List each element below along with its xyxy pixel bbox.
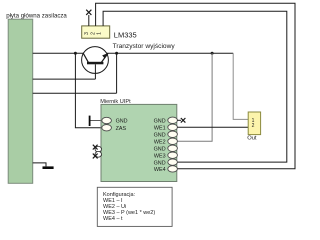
svg-text:GND: GND — [154, 133, 166, 139]
left pin ZAS of meter — [102, 125, 127, 132]
no-connect X on LM335 pin 3 — [86, 10, 91, 15]
wire: riser x=75.4 from node A down to ZAS wire — [75, 53, 102, 128]
LM335 pin 3 lead — [88, 15, 90, 26]
svg-text:GND: GND — [154, 119, 166, 125]
right pin WE2 — [154, 138, 177, 145]
wire: board to base net, y=79.1 — [33, 78, 96, 80]
svg-text:WE2: WE2 — [154, 140, 166, 146]
right pin GND (2) — [154, 131, 178, 138]
ground power bar below board — [33, 163, 54, 169]
LM335 temperature sensor U2 — [82, 26, 137, 40]
svg-text:2: 2 — [252, 123, 255, 129]
svg-text:WE1: WE1 — [154, 126, 166, 132]
svg-text:1: 1 — [97, 32, 103, 35]
svg-text:LM335: LM335 — [114, 31, 137, 40]
configuration note box — [97, 187, 172, 226]
left no-connect pin row 5 of meter — [93, 145, 102, 152]
power bar symbol at meter GND input — [89, 116, 102, 126]
right pin GND (4) — [154, 159, 178, 166]
node B junction dot — [115, 52, 118, 55]
node C junction dot — [211, 52, 214, 55]
svg-text:WE4: WE4 — [154, 167, 166, 173]
left pin GND of meter — [102, 117, 128, 124]
right pin WE3 — [154, 152, 177, 160]
right pin WE1 — [154, 124, 177, 131]
meter sheet symbol "Miernik UIPt" — [100, 99, 177, 182]
wire: LM335 pin 2 up and right outer loop to WE4 — [96, 3, 295, 169]
svg-text:WE3: WE3 — [154, 154, 166, 160]
wire: board to collector riser bottom, y=93.2 — [33, 92, 117, 94]
svg-text:płyta główna zasilacza: płyta główna zasilacza — [6, 12, 67, 19]
node A junction dot — [74, 52, 77, 55]
svg-text:ZAS: ZAS — [116, 126, 127, 132]
wire: grey riser node C down to WE2, x=212.1 — [177, 53, 212, 141]
left no-connect pin row 6 of meter — [93, 151, 102, 158]
wire: collector riser x=116.6 down from node B — [116, 53, 118, 93]
right pin WE4 — [154, 166, 177, 173]
wire: LM335 pin 1 up and right inner loop to GND pin 8 — [103, 11, 287, 162]
svg-text:3: 3 — [84, 32, 90, 35]
no-connect X on right GND (1) — [177, 118, 185, 123]
svg-text:GND: GND — [154, 147, 166, 153]
svg-text:Tranzystor wyjściowy: Tranzystor wyjściowy — [113, 43, 176, 50]
right pin GND (1) — [154, 117, 178, 124]
svg-text:Miernik UIPt: Miernik UIPt — [100, 99, 131, 105]
wire: collector node B to right run, y=53.2 — [107, 52, 233, 54]
output connector "Out" J1 — [247, 112, 260, 142]
wire: riser x=233.2 down to Out pin 1 — [233, 53, 248, 119]
svg-text:GND: GND — [116, 119, 128, 125]
transistor Q1 "Tranzystor wyjściowy" — [82, 43, 176, 79]
svg-text:GND: GND — [154, 160, 166, 166]
right pin GND (3) — [154, 145, 178, 152]
svg-text:Out: Out — [247, 136, 257, 142]
wire: WE1 to Out pin 2 — [177, 126, 248, 128]
svg-text:WE4 – t: WE4 – t — [103, 216, 123, 222]
sheet symbol "płyta główna zasilacza" (power supply main board) — [6, 12, 67, 183]
wire: board to transistor emitter node, y=53.2 — [33, 52, 84, 54]
